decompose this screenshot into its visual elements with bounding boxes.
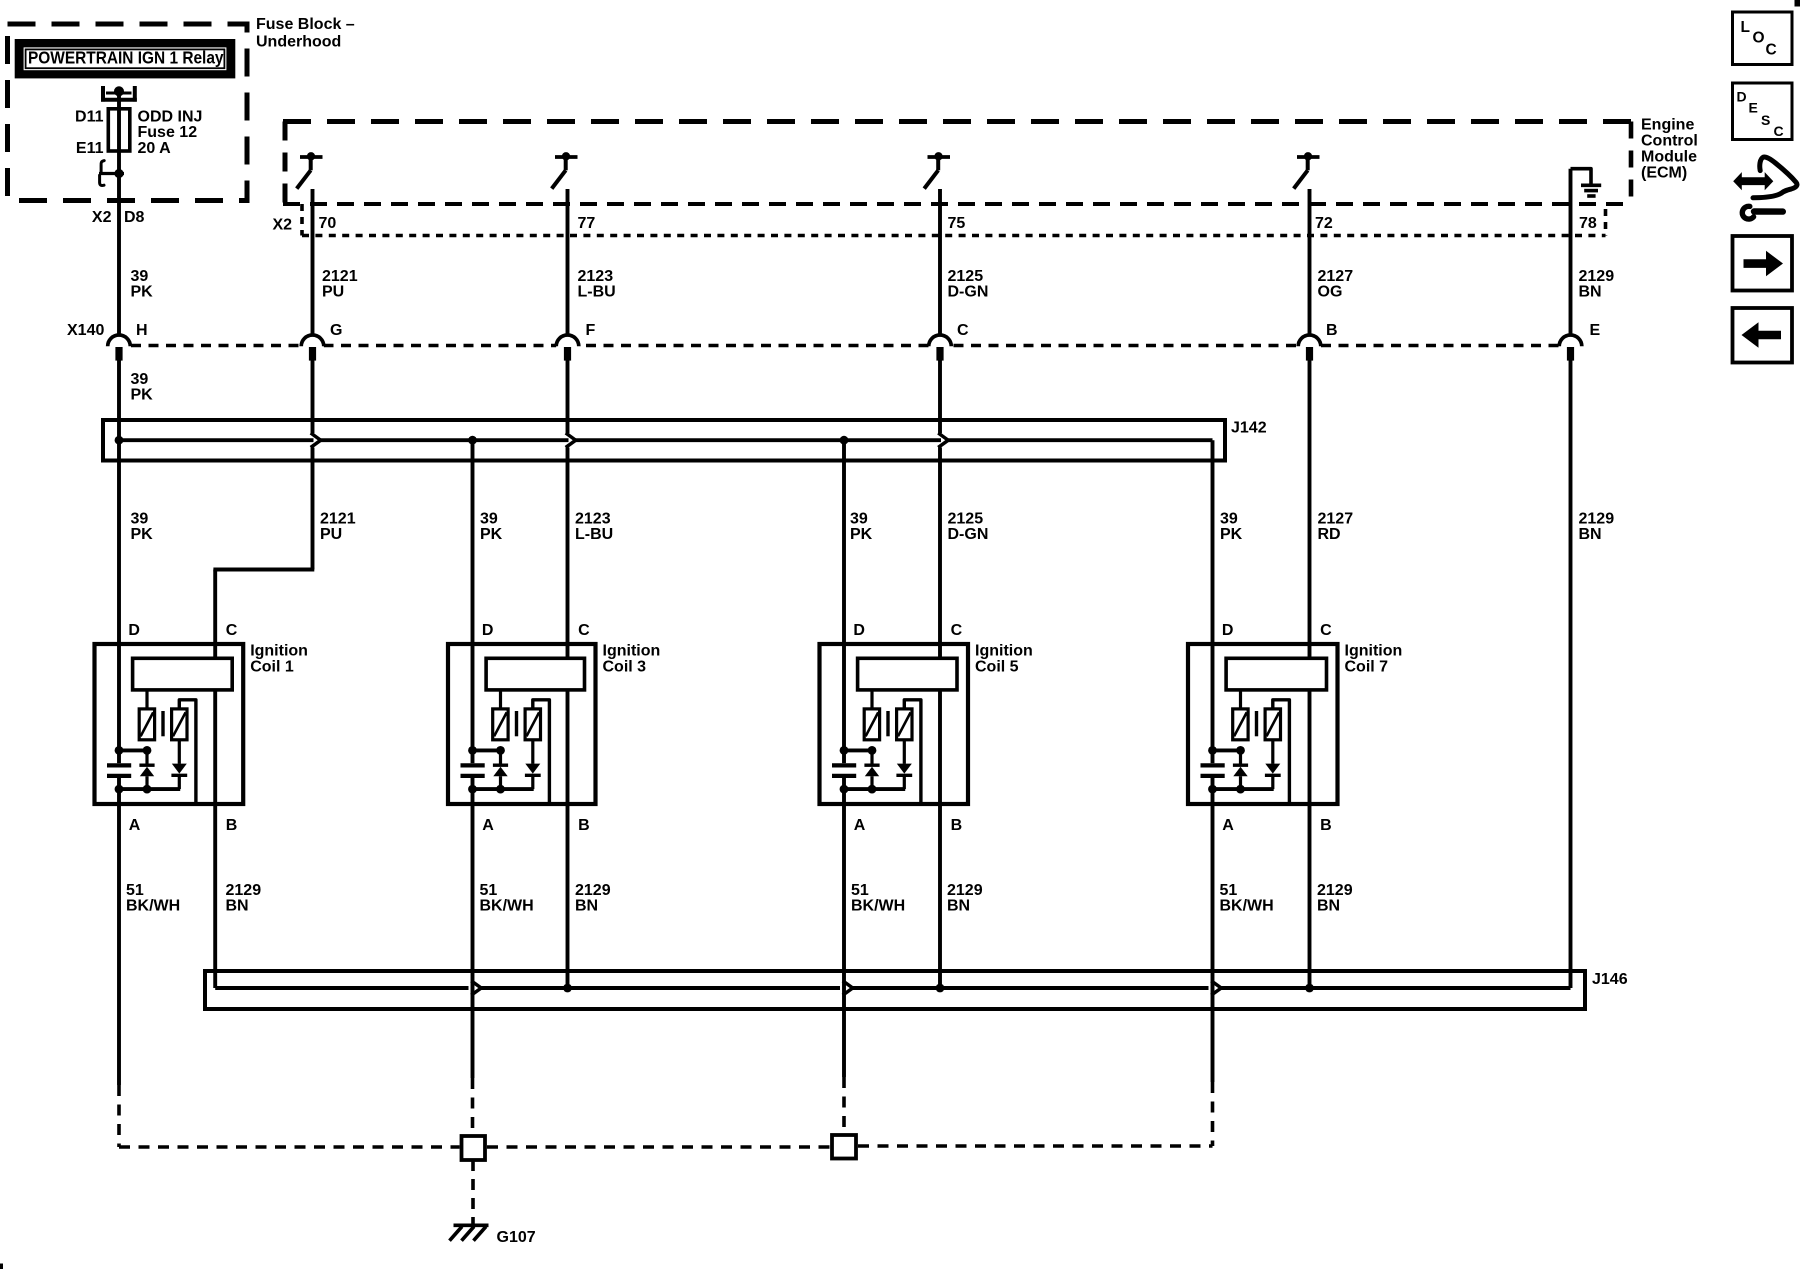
- coil 7 secondary HV output to case: [1273, 700, 1290, 802]
- svg-text:75: 75: [948, 215, 966, 232]
- coil 5 core: [886, 711, 889, 736]
- svg-text:OG: OG: [1318, 284, 1343, 301]
- wire 2125 D-GN ECM pin75 to X140 C: [938, 189, 942, 335]
- svg-text:PK: PK: [850, 526, 873, 543]
- coil 1 diode 1: [145, 750, 148, 764]
- ECM low-side driver switch for pin 75: [928, 155, 951, 159]
- X140 connector terminal H: [108, 337, 131, 349]
- coil 3 bottom node: [473, 787, 534, 791]
- X140 connector terminal E: [1559, 337, 1582, 349]
- coil 7 pin A lead: [1211, 789, 1215, 804]
- svg-text:2127: 2127: [1318, 511, 1354, 528]
- svg-text:Ignition: Ignition: [1345, 642, 1403, 659]
- coil 3 core: [515, 711, 518, 736]
- coil 5 pin C lead: [938, 644, 942, 658]
- svg-text:39: 39: [131, 511, 149, 528]
- coil 3 diode 2: [531, 740, 534, 764]
- svg-text:A: A: [854, 817, 866, 834]
- icon box back arrow: [1733, 308, 1793, 363]
- X140 connector terminal C: [929, 337, 952, 349]
- svg-text:Underhood: Underhood: [256, 34, 341, 51]
- svg-text:Coil 5: Coil 5: [975, 658, 1019, 675]
- bus hop over wire 2123: [566, 433, 576, 447]
- svg-text:G: G: [330, 322, 342, 339]
- coil 5 control module block: [858, 658, 957, 690]
- coil 3 secondary winding: [525, 709, 540, 740]
- svg-text:C: C: [226, 622, 238, 639]
- svg-text:X2: X2: [273, 217, 293, 234]
- coil 1 top node: [119, 748, 147, 752]
- svg-text:(ECM): (ECM): [1641, 165, 1687, 182]
- svg-text:C: C: [1320, 622, 1332, 639]
- coil 1 pin B lead from module: [213, 690, 217, 804]
- coil 5 bottom node: [844, 787, 905, 791]
- ECM low-side driver switch for pin 72: [1297, 155, 1320, 159]
- svg-text:D: D: [128, 622, 140, 639]
- svg-text:BN: BN: [575, 898, 598, 915]
- wire 2123 L-BU X140-F to coil3 C: [566, 361, 570, 434]
- coil 3 control module block: [486, 658, 584, 690]
- wire 2129 BN X140-E to J146: [1569, 361, 1573, 989]
- svg-text:D: D: [1222, 622, 1234, 639]
- svg-text:A: A: [129, 817, 141, 834]
- svg-text:2129: 2129: [226, 882, 262, 899]
- svg-text:B: B: [226, 817, 238, 834]
- svg-text:BN: BN: [947, 898, 970, 915]
- svg-text:Fuse 12: Fuse 12: [138, 124, 198, 141]
- icon box LOC: [1733, 12, 1793, 65]
- relay K-box POWERTRAIN IGN 1 Relay: [15, 39, 236, 78]
- coil 5 diode 1: [870, 750, 873, 764]
- wire 2129 BN ECM pin78 to X140 E: [1569, 169, 1573, 335]
- svg-text:L-BU: L-BU: [575, 526, 613, 543]
- coil 5 primary winding: [864, 709, 879, 740]
- coil 7 pin B lead from module: [1308, 690, 1312, 804]
- wire 51 BK/WH coil5 A down across J146: [842, 804, 846, 1077]
- svg-text:B: B: [1326, 322, 1338, 339]
- wire relay terminal to fuse: [117, 91, 121, 109]
- coil 7 control module block: [1226, 658, 1326, 690]
- svg-text:PU: PU: [322, 284, 344, 301]
- relay contact switch: [99, 172, 124, 175]
- svg-text:F: F: [586, 322, 596, 339]
- ignition coil 3 box: [448, 644, 596, 804]
- ECM X2 connector dotted boundary: [300, 204, 304, 236]
- coil 5 pin D lead: [842, 644, 846, 750]
- ignition coil 1 box: [95, 644, 244, 804]
- svg-text:BK/WH: BK/WH: [1220, 898, 1274, 915]
- fuse F12 ODD INJ 20A: [108, 109, 130, 151]
- coil 5 pin A lead: [842, 789, 846, 804]
- coil 5 secondary HV output to case: [904, 700, 921, 802]
- J146 junction at coil5 B: [936, 984, 945, 993]
- svg-text:77: 77: [578, 215, 596, 232]
- ground splice junction box 2: [832, 1135, 856, 1159]
- ignition coil 5 box: [820, 644, 969, 804]
- svg-text:X140: X140: [67, 322, 104, 339]
- coil 3 pin D lead: [471, 644, 475, 750]
- svg-text:70: 70: [319, 215, 337, 232]
- svg-text:C: C: [951, 622, 963, 639]
- coil 7 diode 2: [1271, 740, 1274, 764]
- icon box DESC: [1733, 83, 1793, 140]
- dashed wire splice1 to splice2: [487, 1145, 830, 1149]
- coil 1 diode 2: [178, 740, 181, 764]
- svg-text:20 A: 20 A: [138, 140, 172, 157]
- coil 1 capacitor: [117, 750, 121, 763]
- svg-text:POWERTRAIN IGN 1 Relay: POWERTRAIN IGN 1 Relay: [28, 48, 224, 68]
- svg-text:Ignition: Ignition: [250, 642, 308, 659]
- svg-text:BN: BN: [226, 898, 249, 915]
- coil 1 primary winding: [139, 709, 154, 740]
- relay output terminal bracket: [101, 86, 105, 102]
- ECM low-side driver switch for pin 77: [555, 155, 578, 159]
- dashed wire coil5 A to splice: [842, 1077, 846, 1135]
- svg-text:2123: 2123: [578, 268, 614, 285]
- svg-text:2129: 2129: [947, 882, 983, 899]
- dashed wire splice to ground G107: [471, 1160, 475, 1228]
- page corner artifact top-right: [1795, 0, 1800, 7]
- J142 internal bus line: [119, 438, 314, 442]
- svg-text:51: 51: [126, 882, 144, 899]
- coil 5 top node: [844, 748, 872, 752]
- dashed wire coil1 A to ground net: [117, 1085, 121, 1147]
- coil 1 secondary winding: [172, 709, 187, 740]
- svg-text:RD: RD: [1318, 526, 1341, 543]
- coil 1 pin A lead: [117, 789, 121, 804]
- svg-text:39: 39: [480, 511, 498, 528]
- ground symbol G107: [454, 1224, 489, 1228]
- J146 junction at coil7 B: [1305, 984, 1314, 993]
- coil 3 capacitor: [471, 750, 475, 763]
- svg-text:PK: PK: [131, 284, 154, 301]
- bus hop over wire 2125: [938, 433, 948, 447]
- wire 51 BK/WH coil7 A down across J146: [1211, 804, 1215, 1082]
- ECM internal ground at pin 78: [1571, 169, 1592, 184]
- splice pack J142 box: [103, 420, 1225, 461]
- svg-text:J142: J142: [1231, 420, 1267, 437]
- coil 5 diode 2: [903, 740, 906, 764]
- ECM low-side driver switch for pin 70: [300, 155, 323, 159]
- svg-text:2129: 2129: [1579, 268, 1615, 285]
- splice pack J146 box: [205, 971, 1585, 1009]
- wire 2125 D-GN X140-C to coil5 C: [938, 361, 942, 434]
- wire 2127 RD X140-B to coil7 C: [1308, 361, 1312, 645]
- svg-text:Coil 7: Coil 7: [1345, 658, 1389, 675]
- bus hop over coil5 A wire: [843, 981, 853, 995]
- svg-text:PU: PU: [320, 526, 342, 543]
- wire relay to X140 pin H (39 PK): [117, 174, 121, 336]
- coil 5 capacitor: [842, 750, 846, 763]
- J142 junction at coil5 feed: [840, 436, 849, 445]
- svg-text:2125: 2125: [948, 511, 984, 528]
- coil 3 primary winding: [493, 709, 508, 740]
- svg-text:J146: J146: [1592, 971, 1628, 988]
- coil 7 top node: [1213, 748, 1241, 752]
- svg-text:L: L: [1741, 19, 1750, 36]
- wire 2129 BN coil7 B to J146: [1308, 804, 1312, 988]
- svg-text:D8: D8: [124, 209, 145, 226]
- svg-text:D-GN: D-GN: [948, 526, 989, 543]
- ignition coil 7 box: [1188, 644, 1338, 804]
- svg-text:PK: PK: [131, 526, 154, 543]
- svg-text:2125: 2125: [948, 268, 984, 285]
- dashed wire coil7 A to splice2: [1211, 1082, 1215, 1146]
- svg-text:C: C: [1766, 42, 1777, 59]
- coil 1 control module block: [133, 658, 233, 690]
- svg-text:51: 51: [1220, 882, 1238, 899]
- bus hop over wire 2121: [311, 433, 321, 447]
- svg-text:D: D: [1737, 89, 1747, 105]
- coil 3 pin B lead from module: [566, 690, 570, 804]
- svg-text:2123: 2123: [575, 511, 611, 528]
- icon box forward arrow: [1733, 236, 1793, 291]
- coil 3 secondary HV output to case: [533, 700, 550, 802]
- svg-text:D: D: [482, 622, 494, 639]
- svg-text:C: C: [578, 622, 590, 639]
- svg-text:39: 39: [850, 511, 868, 528]
- ECM dashed box (Engine Control Module): [283, 119, 1633, 124]
- svg-text:C: C: [957, 322, 969, 339]
- J142 junction at coil1 feed: [115, 436, 124, 445]
- coil 7 core: [1255, 711, 1258, 736]
- svg-text:B: B: [578, 817, 590, 834]
- svg-text:PK: PK: [131, 387, 154, 404]
- X140 connector terminal F: [556, 337, 579, 349]
- coil 1 secondary HV output to case: [179, 700, 196, 802]
- svg-text:2129: 2129: [1317, 882, 1353, 899]
- svg-text:L-BU: L-BU: [578, 284, 616, 301]
- coil 3 diode 1: [499, 750, 502, 764]
- svg-text:BN: BN: [1317, 898, 1340, 915]
- wire 39 PK X140-H through J142 to coil1 D: [117, 361, 121, 645]
- coil 1 bottom node: [119, 787, 180, 791]
- svg-text:C: C: [1774, 123, 1784, 139]
- svg-text:51: 51: [851, 882, 869, 899]
- wire 2129 BN coil3 B to J146: [566, 804, 570, 988]
- coil 3 top node: [473, 748, 501, 752]
- svg-text:BK/WH: BK/WH: [126, 898, 180, 915]
- svg-text:Module: Module: [1641, 149, 1697, 166]
- X140 connector terminal B: [1298, 337, 1321, 349]
- svg-text:Ignition: Ignition: [603, 642, 661, 659]
- hand-drawn pointer scribble icon: [1733, 172, 1773, 190]
- svg-text:A: A: [1222, 817, 1234, 834]
- svg-text:39: 39: [131, 268, 149, 285]
- svg-text:BN: BN: [1579, 526, 1602, 543]
- svg-text:O: O: [1753, 30, 1765, 47]
- svg-text:2127: 2127: [1318, 268, 1354, 285]
- dashed wire coil3 A to splice: [471, 1078, 475, 1136]
- svg-text:Fuse Block –: Fuse Block –: [256, 16, 355, 33]
- coil 7 secondary winding: [1265, 709, 1280, 740]
- coil 1 pin D lead: [117, 644, 121, 750]
- wire 39 PK J142 to coil3 D: [471, 440, 475, 644]
- J142 junction at coil3 feed: [468, 436, 477, 445]
- wire 2121 PU jog to coil1 C: [213, 568, 314, 572]
- wire 51 BK/WH coil1 A down: [117, 804, 121, 1085]
- svg-text:2121: 2121: [322, 268, 358, 285]
- svg-text:H: H: [136, 322, 148, 339]
- svg-text:Coil 3: Coil 3: [603, 658, 647, 675]
- svg-text:BN: BN: [1579, 284, 1602, 301]
- svg-text:BK/WH: BK/WH: [480, 898, 534, 915]
- page corner artifact bottom-left: [0, 1264, 3, 1270]
- svg-text:78: 78: [1579, 215, 1597, 232]
- wire 51 BK/WH coil3 A down across J146: [471, 804, 475, 1078]
- svg-text:B: B: [951, 817, 963, 834]
- svg-text:51: 51: [480, 882, 498, 899]
- wire 2127 OG ECM pin72 to X140 B: [1308, 189, 1312, 335]
- coil 7 capacitor: [1211, 750, 1215, 763]
- coil 7 diode 1: [1239, 750, 1242, 764]
- svg-text:2121: 2121: [320, 511, 356, 528]
- coil 3 pin C lead: [566, 644, 570, 658]
- coil 7 pin C lead: [1308, 644, 1312, 658]
- wire 2121 PU ECM pin70 to X140 G: [311, 189, 315, 335]
- wire 39 PK J142 to coil7 D: [1211, 440, 1215, 644]
- coil 1 pin C lead: [213, 644, 217, 658]
- svg-text:72: 72: [1315, 215, 1333, 232]
- svg-text:E: E: [1749, 100, 1758, 116]
- coil 7 primary winding: [1233, 709, 1248, 740]
- J146 internal bus line: [215, 986, 468, 990]
- wire 2123 L-BU ECM pin77 to X140 F: [566, 189, 570, 335]
- svg-text:Control: Control: [1641, 133, 1698, 150]
- wire 39 PK J142 to coil5 D: [842, 440, 846, 644]
- svg-text:39: 39: [1220, 511, 1238, 528]
- coil 1 core: [161, 711, 164, 736]
- wire 2121 PU X140-G down across J142: [311, 361, 315, 434]
- bus hop over coil7 A wire: [1211, 981, 1221, 995]
- svg-text:D-GN: D-GN: [948, 284, 989, 301]
- coil 5 pin B lead from module: [938, 690, 942, 804]
- coil 7 bottom node: [1213, 787, 1274, 791]
- svg-text:B: B: [1320, 817, 1332, 834]
- svg-text:2129: 2129: [575, 882, 611, 899]
- coil 7 pin D lead: [1211, 644, 1215, 750]
- svg-text:Engine: Engine: [1641, 117, 1694, 134]
- coil 5 secondary winding: [897, 709, 912, 740]
- J146 junction at coil3 B: [563, 984, 572, 993]
- X140 inline connector dashed row: [131, 344, 1571, 348]
- svg-text:PK: PK: [1220, 526, 1243, 543]
- svg-text:G107: G107: [497, 1229, 536, 1246]
- svg-text:D: D: [853, 622, 865, 639]
- svg-text:E11: E11: [76, 140, 104, 157]
- svg-text:ODD INJ: ODD INJ: [138, 108, 203, 125]
- wire 2129 BN coil5 B to J146: [938, 804, 942, 988]
- coil 3 pin A lead: [471, 789, 475, 804]
- svg-text:D11: D11: [75, 108, 104, 125]
- wire 2129 BN coil1 B to J146: [213, 804, 217, 988]
- svg-text:E: E: [1590, 322, 1601, 339]
- ground splice junction box at G107 feed: [462, 1136, 486, 1160]
- svg-text:PK: PK: [480, 526, 503, 543]
- svg-text:2129: 2129: [1579, 511, 1615, 528]
- bus hop over coil3 A wire: [471, 981, 481, 995]
- X140 connector terminal G: [301, 337, 324, 349]
- svg-text:A: A: [482, 817, 494, 834]
- svg-text:Ignition: Ignition: [975, 642, 1033, 659]
- svg-text:39: 39: [131, 371, 149, 388]
- svg-text:S: S: [1761, 112, 1770, 128]
- svg-text:Coil 1: Coil 1: [250, 658, 294, 675]
- svg-text:BK/WH: BK/WH: [851, 898, 905, 915]
- fuse block underhood dashed box: [8, 24, 248, 201]
- svg-text:X2: X2: [92, 209, 112, 226]
